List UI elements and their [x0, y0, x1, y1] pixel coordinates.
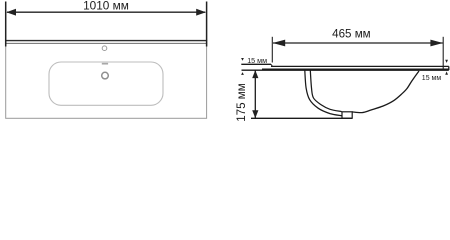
dimension 1010 mm: left extension line — [5, 2, 7, 47]
side view: bowl right profile — [352, 71, 419, 113]
top view: counter outline — [6, 41, 207, 119]
dimension 175 mm: top arrowhead — [252, 70, 258, 78]
svg-text:175 мм: 175 мм — [235, 83, 248, 122]
dimension 175 mm: bottom arrowhead — [252, 110, 258, 118]
dimension 465 mm: left arrowhead — [273, 40, 286, 47]
top view: front edge line (upper) — [5, 40, 207, 42]
side view: rear rim top line — [241, 63, 271, 65]
side view: drain fitting — [342, 112, 352, 118]
dimension 15 mm left: lower arrowhead — [241, 72, 244, 75]
top view: bowl outline — [49, 62, 163, 105]
dimension 15 mm right: lower arrowhead — [445, 72, 448, 75]
side view: bowl outer wall — [305, 70, 342, 116]
dimension 465 mm: right arrowhead — [430, 40, 443, 47]
svg-text:15 мм: 15 мм — [422, 75, 442, 82]
dimension 465 mm: dimension line — [273, 42, 443, 44]
dimension 1010 mm: right arrowhead — [196, 9, 206, 16]
side view: deck right end — [448, 66, 450, 70]
dimension 1010 mm: dimension line — [7, 11, 205, 13]
top view: overflow tick — [102, 63, 108, 65]
dimension 1010 mm: left arrowhead — [6, 9, 16, 16]
top view: front edge line (lower) — [5, 42, 207, 44]
dimension 465 mm: right extension line — [442, 37, 444, 70]
side view: deck bottom line — [242, 69, 449, 71]
svg-text:1010 мм: 1010 мм — [83, 0, 129, 13]
dimension 15 mm left: upper arrowhead — [241, 58, 244, 61]
dimension 1010 mm: right extension line — [206, 2, 208, 47]
dimension 465 mm: left extension line — [271, 37, 273, 63]
side view: bowl inner wall — [310, 70, 341, 111]
side view: bottom reference line — [251, 117, 352, 119]
side view: far rim line — [262, 68, 449, 70]
svg-text:15 мм: 15 мм — [247, 56, 267, 65]
top view: faucet hole — [102, 46, 107, 51]
dimension 175 mm: dimension line — [254, 71, 256, 119]
side view: deck top line — [271, 65, 449, 67]
dimension 15 mm right: upper arrowhead — [445, 60, 448, 63]
side view: rear rim step — [271, 64, 273, 66]
top view: deck hole — [102, 72, 109, 79]
svg-text:465 мм: 465 мм — [332, 27, 371, 40]
